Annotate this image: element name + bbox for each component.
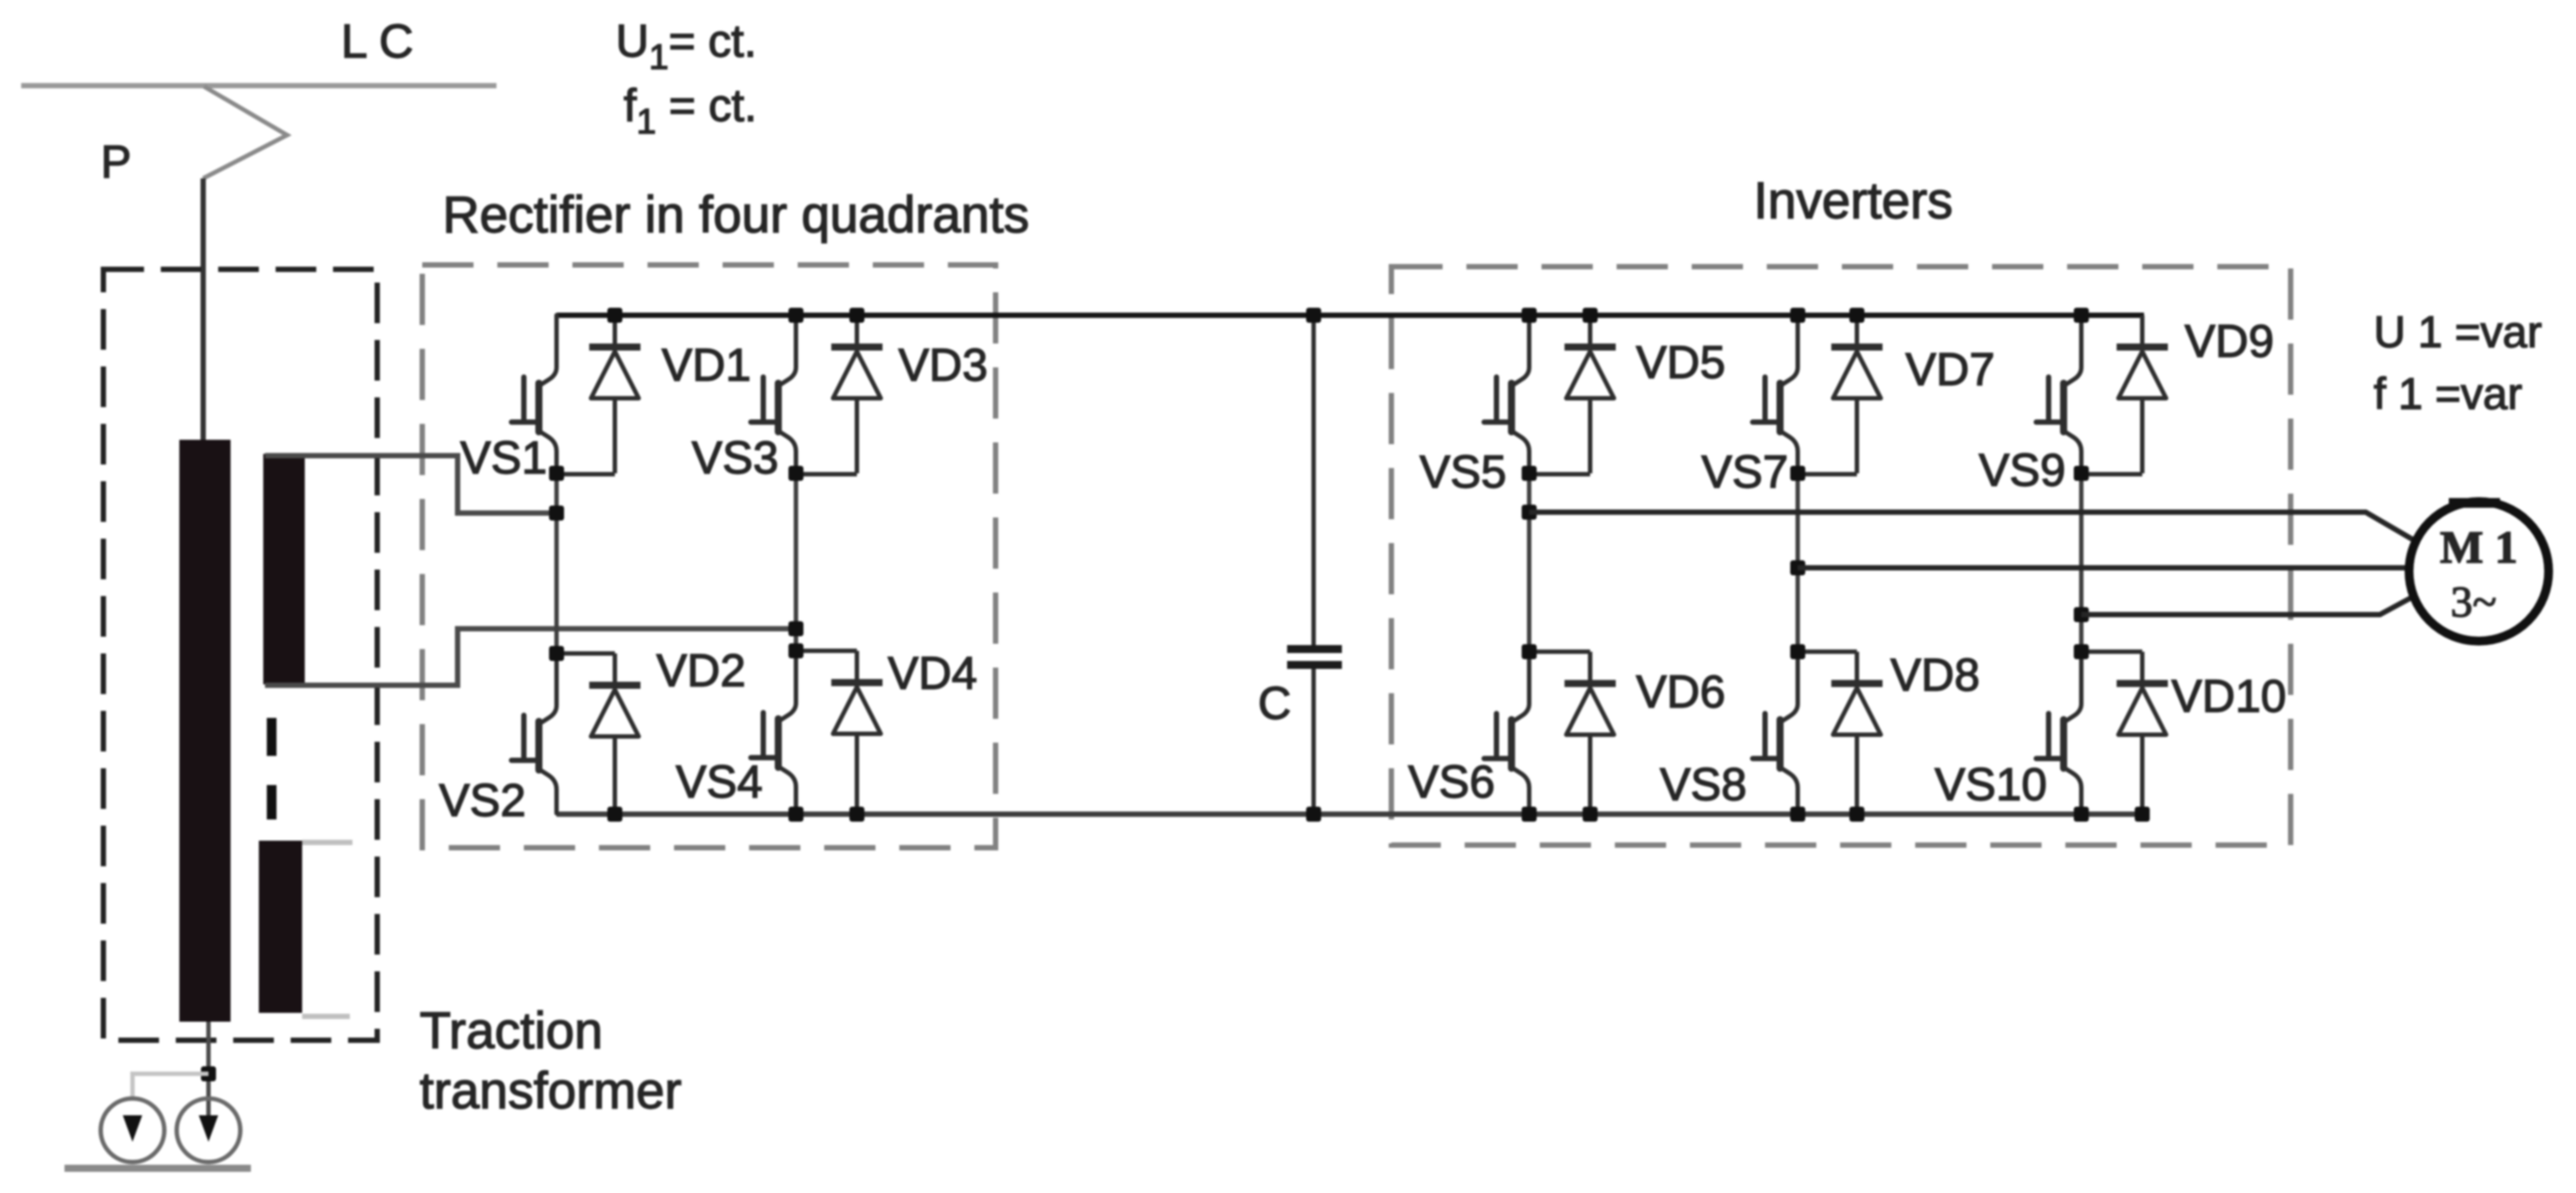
- capacitor C plates: [1287, 649, 1342, 665]
- wire phase B to motor: [1798, 565, 2408, 570]
- transformer secondary b stub leads: [302, 842, 352, 1016]
- node capacitor bottom: [1307, 807, 1322, 822]
- wire top DC bus: [557, 313, 2144, 318]
- wire VS4 collector to VD4: [796, 649, 857, 653]
- wire phase A to motor: [1529, 512, 2414, 540]
- svg-text:Rectifier in four quadrants: Rectifier in four quadrants: [443, 186, 1029, 244]
- transformer T1 secondary winding b: [259, 841, 302, 1013]
- node phase C tap: [2074, 608, 2089, 623]
- node leg A input: [549, 506, 564, 521]
- svg-text:VD6: VD6: [1636, 667, 1725, 718]
- capacitor C column: [1312, 315, 1316, 814]
- node VS8 emitter bus: [1791, 807, 1806, 822]
- diode VD1: [589, 315, 640, 473]
- wire VS6 collector to VD6: [1529, 650, 1590, 654]
- svg-text:VS7: VS7: [1701, 447, 1788, 498]
- svg-text:L C: L C: [341, 15, 413, 68]
- diode VD5: [1565, 315, 1616, 473]
- diode VD8: [1831, 652, 1883, 814]
- svg-text:VD7: VD7: [1905, 344, 1995, 396]
- wire VS8 collector to VD8: [1798, 650, 1857, 654]
- svg-text:VS2: VS2: [439, 775, 526, 827]
- wire inverter leg 1 column: [1527, 472, 1532, 652]
- rectifier dashed box: [422, 265, 996, 848]
- node capacitor top: [1307, 308, 1322, 323]
- node wheel junction: [201, 1067, 216, 1082]
- node VS10 emitter bus: [2074, 807, 2089, 822]
- wire transformer to wheels: [207, 1022, 211, 1130]
- transformer T1 primary winding: [179, 440, 231, 1022]
- node VD4 bus: [850, 807, 865, 822]
- svg-text:VD9: VD9: [2185, 316, 2274, 367]
- node VS2 collector: [549, 646, 564, 661]
- wire VS9 emitter to VD9: [2081, 472, 2142, 477]
- node VS9 emitter: [2074, 466, 2089, 481]
- wire leg B midpoint column: [794, 472, 799, 651]
- svg-text:Traction: Traction: [420, 1002, 602, 1060]
- svg-text:transformer: transformer: [420, 1062, 682, 1120]
- node VD3 bus: [850, 308, 865, 323]
- node VD7 bus: [1850, 308, 1865, 323]
- transformer winding continuation dashes: [267, 718, 277, 756]
- wire VS10 collector to VD10: [2081, 650, 2142, 654]
- svg-text:VS5: VS5: [1420, 447, 1506, 498]
- svg-text:P: P: [101, 137, 132, 188]
- node VS3 emitter: [789, 466, 804, 481]
- transformer T1 secondary winding a: [263, 454, 305, 684]
- wire bottom DC bus: [557, 812, 2141, 817]
- svg-text:VS6: VS6: [1408, 757, 1495, 808]
- node VS8 collector: [1791, 645, 1806, 660]
- node VS5 emitter: [1522, 466, 1537, 481]
- inverter dashed box: [1391, 267, 2291, 845]
- svg-text:VD2: VD2: [656, 646, 746, 697]
- diode VD2: [589, 653, 640, 816]
- diode VD9: [2117, 315, 2168, 473]
- node VS6 emitter bus: [1522, 807, 1537, 822]
- svg-text:VD4: VD4: [888, 648, 977, 699]
- wire VS5 emitter to VD5: [1529, 472, 1590, 477]
- diode VD10: [2117, 652, 2168, 814]
- transistor VS10: [2036, 652, 2081, 812]
- svg-text:f 1 =var: f 1 =var: [2374, 369, 2522, 419]
- node VS7 emitter: [1791, 466, 1806, 481]
- wire pantograph to transformer primary: [201, 178, 206, 442]
- transistor VS9: [2036, 315, 2081, 475]
- wheel W1: [101, 1099, 164, 1162]
- wire leg A midpoint column: [555, 472, 559, 653]
- transistor VS7: [1753, 315, 1798, 475]
- wire inverter leg 3 column: [2080, 472, 2084, 652]
- svg-text:C: C: [1258, 678, 1292, 729]
- wire VS7 emitter to VD7: [1798, 472, 1857, 477]
- diode VD4: [831, 651, 883, 813]
- transistor VS4: [751, 651, 796, 811]
- node phase A tap: [1522, 505, 1537, 520]
- ground rail: [64, 1165, 251, 1172]
- svg-text:VS9: VS9: [1979, 445, 2065, 496]
- node VS5 collector bus: [1522, 308, 1537, 323]
- svg-text:VS3: VS3: [692, 433, 778, 484]
- svg-text:VD3: VD3: [898, 340, 988, 391]
- transistor VS3: [751, 315, 796, 475]
- traction transformer dashed box: [103, 269, 377, 1040]
- svg-text:U 1 =var: U 1 =var: [2374, 307, 2542, 357]
- node VS6 collector: [1522, 645, 1537, 660]
- diode VD7: [1831, 315, 1883, 473]
- transistor VS2: [511, 653, 557, 813]
- node VS10 collector: [2074, 645, 2089, 660]
- svg-text:3~: 3~: [2451, 577, 2496, 626]
- svg-text:VD10: VD10: [2171, 671, 2286, 722]
- node VS3 collector bus: [789, 308, 804, 323]
- svg-text:VS4: VS4: [676, 757, 762, 808]
- node VS4 emitter bus: [789, 807, 804, 822]
- node VD5 bus: [1583, 308, 1598, 323]
- node VD2 bus: [608, 807, 623, 822]
- motor M1: [2409, 502, 2549, 641]
- svg-text:VD1: VD1: [662, 340, 751, 391]
- transistor VS5: [1484, 315, 1529, 475]
- wire phase C to motor: [2081, 597, 2413, 615]
- node leg B input: [789, 622, 804, 637]
- node VS7 collector bus: [1791, 308, 1806, 323]
- wire VS3 emitter to VD3: [796, 472, 857, 477]
- wire LC catenary line: [21, 83, 496, 88]
- svg-text:Inverters: Inverters: [1754, 172, 1953, 230]
- svg-text:VD5: VD5: [1636, 337, 1725, 389]
- transistor VS6: [1484, 652, 1529, 812]
- wire secondary upper terminal to leg A midpoint: [265, 456, 557, 513]
- svg-text:VD8: VD8: [1890, 650, 1980, 701]
- svg-text:M 1: M 1: [2440, 523, 2518, 573]
- svg-text:VS8: VS8: [1660, 759, 1746, 811]
- node VD6 bus: [1583, 807, 1598, 822]
- node VS9 collector bus: [2074, 308, 2089, 323]
- wire branch to left wheel: [133, 1074, 208, 1100]
- svg-text:VS1: VS1: [460, 433, 547, 484]
- node phase B tap: [1791, 561, 1806, 576]
- wheel W2: [177, 1099, 240, 1162]
- node VD10 bus: [2135, 807, 2150, 822]
- svg-text:VS10: VS10: [1935, 759, 2047, 811]
- wire VS2 collector to VD2: [557, 652, 615, 656]
- node VS4 collector: [789, 644, 804, 659]
- pantograph P: [203, 87, 287, 178]
- wire inverter leg 2 column: [1796, 472, 1800, 652]
- node VS1 emitter: [549, 466, 564, 481]
- wire secondary lower terminal to leg B midpoint: [265, 629, 796, 685]
- node VD8 bus: [1850, 807, 1865, 822]
- transistor VS8: [1753, 652, 1798, 812]
- wire VS1 emitter to VD1: [557, 472, 615, 477]
- diode VD6: [1565, 652, 1616, 814]
- node VD1 bus: [608, 308, 623, 323]
- transistor VS1: [511, 315, 557, 475]
- diode VD3: [831, 315, 883, 473]
